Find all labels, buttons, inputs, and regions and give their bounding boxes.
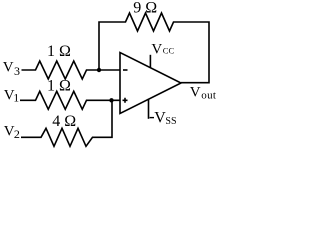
svg-text:V: V bbox=[151, 42, 162, 58]
svg-text:CC: CC bbox=[163, 46, 175, 56]
svg-text:1 Ω: 1 Ω bbox=[47, 43, 71, 60]
svg-text:2: 2 bbox=[14, 127, 20, 141]
svg-text:out: out bbox=[201, 89, 216, 101]
svg-text:V: V bbox=[3, 60, 14, 76]
svg-text:9 Ω: 9 Ω bbox=[133, 0, 157, 16]
svg-text:V: V bbox=[190, 85, 201, 101]
svg-text:3: 3 bbox=[14, 64, 20, 78]
svg-text:SS: SS bbox=[165, 116, 176, 127]
svg-text:1 Ω: 1 Ω bbox=[47, 78, 71, 95]
svg-text:4 Ω: 4 Ω bbox=[52, 113, 76, 130]
svg-text:1: 1 bbox=[13, 91, 19, 105]
svg-text:V: V bbox=[154, 110, 166, 127]
